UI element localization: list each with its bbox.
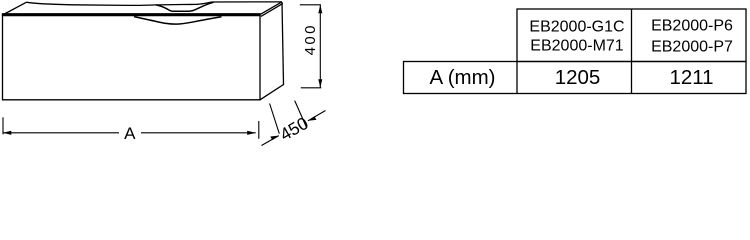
svg-text:1205: 1205 xyxy=(555,66,601,89)
svg-text:A: A xyxy=(124,124,136,143)
svg-text:EB2000-P7: EB2000-P7 xyxy=(651,38,733,55)
svg-text:400: 400 xyxy=(302,23,319,55)
svg-text:EB2000-P6: EB2000-P6 xyxy=(651,17,733,34)
svg-text:A (mm): A (mm) xyxy=(429,66,495,89)
svg-text:1211: 1211 xyxy=(669,66,713,89)
svg-text:EB2000-G1C: EB2000-G1C xyxy=(529,18,624,35)
svg-text:EB2000-M71: EB2000-M71 xyxy=(530,38,623,55)
